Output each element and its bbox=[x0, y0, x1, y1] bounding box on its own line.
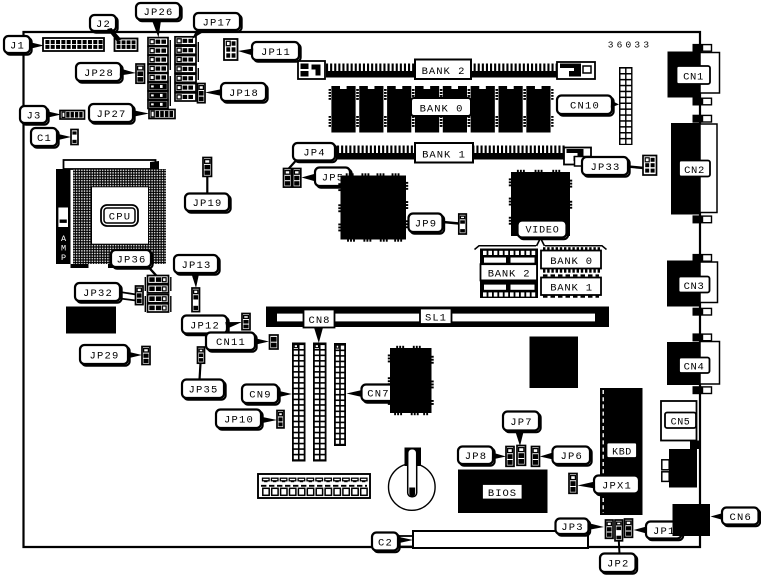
jumper JPX1 bbox=[569, 474, 577, 494]
label JP18 bbox=[221, 83, 268, 103]
wire CN7 arrow bbox=[347, 390, 363, 397]
video memory socket BANK2 bbox=[480, 249, 538, 299]
port CN2 bbox=[671, 123, 717, 215]
wire JP12 arrow bbox=[225, 322, 242, 329]
wire C2 arrow bbox=[397, 537, 413, 544]
svg-text:CN8: CN8 bbox=[309, 315, 331, 327]
svg-text:J1: J1 bbox=[10, 40, 25, 52]
svg-text:JP12: JP12 bbox=[190, 320, 220, 332]
label JP9 bbox=[409, 214, 445, 234]
svg-text:36033: 36033 bbox=[608, 40, 653, 51]
wire JP26 pointer bbox=[152, 21, 161, 38]
battery bbox=[389, 448, 436, 511]
wire J2 arrow bbox=[107, 28, 122, 41]
wire JP29 arrow bbox=[127, 352, 142, 359]
svg-text:C1: C1 bbox=[37, 133, 52, 145]
connector J3 bbox=[60, 111, 85, 120]
connector CN10 bbox=[619, 67, 633, 145]
label JP13 bbox=[174, 255, 220, 275]
label JP3 bbox=[556, 519, 591, 536]
jumper block JP36 bbox=[145, 276, 171, 313]
label BANK 2 (slot) bbox=[415, 60, 471, 80]
svg-text:CN3: CN3 bbox=[684, 281, 705, 293]
svg-text:M: M bbox=[61, 244, 66, 254]
svg-text:JP28: JP28 bbox=[84, 68, 114, 80]
svg-text:VIDEO: VIDEO bbox=[525, 226, 559, 237]
SIMM socket BANK1 slot bbox=[337, 146, 591, 167]
svg-text:CN9: CN9 bbox=[249, 390, 272, 402]
svg-text:C2: C2 bbox=[378, 537, 393, 549]
svg-text:JP18: JP18 bbox=[229, 88, 259, 100]
wire CN10 arrow bbox=[611, 101, 619, 108]
label JPX1 bbox=[594, 476, 641, 496]
port CN3 bbox=[667, 261, 718, 307]
keyboard controller KBD bbox=[600, 388, 643, 515]
svg-text:CN2: CN2 bbox=[684, 165, 705, 177]
svg-text:JP29: JP29 bbox=[89, 350, 119, 362]
jumper JP4 bbox=[284, 169, 292, 188]
svg-text:JP2: JP2 bbox=[607, 559, 630, 571]
label BIOS bbox=[482, 484, 523, 500]
label VIDEO bbox=[518, 221, 569, 240]
svg-text:JP8: JP8 bbox=[465, 451, 488, 463]
CPU socket feet bbox=[71, 264, 124, 268]
wire CN6 arrow bbox=[711, 513, 724, 520]
svg-text:CN4: CN4 bbox=[684, 362, 705, 374]
jumper JP10 bbox=[277, 411, 284, 428]
label KBD bbox=[607, 443, 638, 459]
jumper block JP26 bbox=[148, 38, 170, 109]
jumper CN11 bbox=[270, 335, 279, 349]
jumper JP13 bbox=[192, 288, 200, 312]
label JP8 bbox=[458, 447, 495, 466]
audio jack stack bbox=[662, 449, 697, 488]
label BANK 0 (chips) bbox=[411, 98, 471, 116]
label JP17 bbox=[194, 13, 242, 32]
connector J1 bbox=[43, 38, 104, 51]
label CN10 bbox=[557, 96, 614, 116]
SIMM memory chips BANK0 bbox=[329, 86, 554, 133]
wire JP36 pointer bbox=[148, 267, 158, 278]
label J1 bbox=[4, 36, 32, 55]
wire JP1 arrow bbox=[634, 527, 647, 534]
jumper JP33 bbox=[643, 156, 657, 176]
jumper block JP17 bbox=[175, 37, 198, 101]
board outline bbox=[24, 32, 701, 547]
label JP6 bbox=[553, 447, 592, 466]
jumper JP3 bbox=[606, 520, 614, 538]
wire JP3 arrow bbox=[588, 523, 604, 530]
svg-text:JP17: JP17 bbox=[202, 17, 232, 29]
wire JP4 pointer bbox=[288, 161, 297, 171]
connector J2 bbox=[115, 39, 138, 52]
label CPU bbox=[101, 205, 138, 226]
svg-text:CN5: CN5 bbox=[671, 418, 691, 429]
jumper JP12 bbox=[242, 314, 250, 330]
jumper JP32 bbox=[136, 286, 144, 305]
label CN1 bbox=[677, 66, 711, 84]
wire C1 arrow bbox=[56, 134, 71, 141]
wire JP17 pointer bbox=[192, 31, 205, 39]
part number 36033 bbox=[608, 40, 653, 51]
label C2 bbox=[372, 533, 400, 553]
wire JP18 arrow bbox=[205, 89, 222, 96]
svg-text:JP32: JP32 bbox=[83, 288, 113, 300]
svg-text:BANK 1: BANK 1 bbox=[422, 150, 466, 162]
port mounting tabs bbox=[693, 44, 712, 394]
jumper JP6 bbox=[532, 447, 540, 467]
wire VIDEO pointer bbox=[537, 238, 545, 246]
label JP2 bbox=[600, 554, 637, 574]
svg-text:JP35: JP35 bbox=[188, 385, 218, 397]
svg-text:CPU: CPU bbox=[109, 212, 132, 224]
svg-text:CN11: CN11 bbox=[216, 337, 246, 349]
wire JP13 pointer bbox=[192, 274, 200, 288]
svg-text:BANK 2: BANK 2 bbox=[488, 269, 531, 281]
label J2 bbox=[90, 15, 118, 33]
wire J3 arrow bbox=[46, 111, 61, 118]
label JP7 bbox=[503, 412, 541, 433]
svg-text:P: P bbox=[61, 253, 66, 263]
label JP35 bbox=[182, 380, 226, 400]
wire JP32 arrows bbox=[120, 292, 136, 301]
svg-text:JP3: JP3 bbox=[561, 522, 584, 534]
svg-text:CN7: CN7 bbox=[367, 389, 390, 401]
label CN3 bbox=[679, 277, 710, 294]
wire CN9 arrow bbox=[277, 391, 292, 398]
super I/O chip bbox=[388, 346, 434, 415]
svg-text:CN6: CN6 bbox=[729, 512, 752, 524]
label J3 bbox=[20, 106, 49, 125]
wire CN8 pointer bbox=[314, 328, 323, 344]
jumper JP28 bbox=[136, 64, 145, 83]
video memory socket BANK1 bbox=[541, 276, 601, 297]
wire J1 arrow bbox=[29, 42, 44, 49]
svg-text:JP1: JP1 bbox=[653, 526, 676, 538]
slot CN8/SL1 bar bbox=[266, 307, 609, 328]
svg-text:BIOS: BIOS bbox=[488, 488, 517, 500]
jumper JP1 bbox=[625, 519, 633, 537]
label JP29 bbox=[80, 345, 130, 366]
power connector bbox=[258, 474, 370, 498]
wire JP28 arrow bbox=[120, 69, 136, 76]
wire JPX1 arrow bbox=[578, 482, 596, 489]
svg-text:JP33: JP33 bbox=[590, 162, 620, 174]
wire JP2 pointer bbox=[618, 541, 621, 555]
svg-text:KBD: KBD bbox=[612, 448, 632, 459]
port CN6 bbox=[673, 504, 711, 536]
jumper JP5 bbox=[293, 169, 301, 188]
CPU retention bar bbox=[64, 160, 160, 169]
wire CN11 arrow bbox=[254, 338, 269, 345]
svg-text:JP10: JP10 bbox=[224, 415, 254, 427]
jumper JP2 bbox=[615, 520, 623, 541]
label JP5 bbox=[315, 168, 352, 188]
port CN4 bbox=[667, 342, 720, 386]
svg-text:JP4: JP4 bbox=[303, 148, 326, 160]
svg-text:JP7: JP7 bbox=[510, 417, 533, 429]
wire JP9 arrow bbox=[443, 222, 459, 224]
port CN1 bbox=[668, 52, 720, 98]
label CN5 bbox=[665, 413, 696, 429]
label JP27 bbox=[89, 104, 135, 124]
jumper JP8 bbox=[506, 447, 514, 467]
svg-text:JP11: JP11 bbox=[261, 47, 291, 59]
label CN6 bbox=[722, 508, 760, 527]
wire JP19 pointer bbox=[206, 177, 208, 195]
port CN5 bbox=[661, 401, 700, 449]
label JP32 bbox=[75, 283, 122, 303]
label JP11 bbox=[252, 42, 301, 62]
svg-text:BANK 0: BANK 0 bbox=[550, 256, 593, 268]
svg-text:JP19: JP19 bbox=[192, 198, 222, 210]
svg-text:JP36: JP36 bbox=[116, 254, 146, 266]
BIOS chip bbox=[458, 470, 548, 514]
wire JP10 arrow bbox=[260, 417, 277, 424]
SIMM socket BANK2 slot bbox=[298, 61, 595, 79]
label JP36 bbox=[111, 250, 153, 269]
label JP19 bbox=[185, 194, 231, 213]
connector CN8 header bbox=[313, 343, 327, 462]
svg-text:BANK 0: BANK 0 bbox=[420, 104, 464, 116]
connector CN7 header bbox=[334, 343, 346, 446]
cache chip bbox=[66, 307, 116, 334]
voltage regulator AMP bbox=[56, 169, 71, 264]
label CN9 bbox=[242, 385, 280, 405]
label JP26 bbox=[136, 3, 182, 21]
wire JP11 arrow bbox=[238, 49, 253, 56]
label CN2 bbox=[679, 161, 710, 178]
svg-text:SL1: SL1 bbox=[425, 313, 447, 325]
chipset chip U2 bbox=[338, 173, 408, 241]
svg-text:J3: J3 bbox=[26, 110, 41, 122]
label CN4 bbox=[679, 358, 710, 374]
wire JP35 pointer bbox=[200, 363, 201, 380]
svg-text:JP9: JP9 bbox=[415, 219, 438, 231]
overbrace video banks bbox=[475, 246, 607, 250]
svg-text:JP27: JP27 bbox=[96, 109, 126, 121]
wire JP33 arrow bbox=[628, 167, 644, 169]
label CN8 bbox=[304, 310, 335, 328]
jumper JP18 bbox=[198, 84, 206, 103]
label JP28 bbox=[76, 63, 123, 83]
video memory socket BANK0 bbox=[541, 247, 601, 273]
video chip bbox=[509, 170, 572, 236]
wire JP5 arrow bbox=[302, 174, 315, 181]
jumper JP7 bbox=[517, 446, 526, 466]
label BANK 1 (slot) bbox=[415, 143, 473, 163]
logic chip bbox=[530, 337, 579, 389]
jumper JP11 bbox=[224, 39, 238, 60]
jumper JP19 bbox=[203, 158, 212, 177]
label SL1 bbox=[420, 309, 452, 325]
svg-text:A: A bbox=[61, 234, 67, 244]
jumper JP9 bbox=[459, 214, 467, 234]
svg-text:JP13: JP13 bbox=[181, 260, 211, 272]
svg-text:JP26: JP26 bbox=[143, 7, 173, 19]
wire JP6 arrow bbox=[540, 453, 553, 460]
connector CN9 header bbox=[292, 343, 306, 462]
label CN7 bbox=[362, 385, 397, 403]
jumper JP29 bbox=[142, 347, 150, 365]
svg-text:BANK 1: BANK 1 bbox=[550, 283, 593, 295]
svg-text:CN10: CN10 bbox=[570, 101, 600, 113]
label C1 bbox=[31, 128, 59, 148]
capacitor C1 bbox=[71, 130, 78, 145]
jumper JP35 bbox=[198, 347, 205, 363]
label JP33 bbox=[582, 157, 630, 177]
CPU socket U? bbox=[73, 169, 166, 264]
wire JP27 arrow bbox=[132, 110, 149, 117]
label JP10 bbox=[216, 410, 263, 430]
label JP12 bbox=[182, 316, 229, 336]
svg-text:CN1: CN1 bbox=[683, 72, 704, 84]
label JP1 bbox=[646, 522, 683, 541]
wire JP7 pointer bbox=[516, 432, 524, 446]
label JP4 bbox=[293, 143, 337, 162]
svg-text:JP6: JP6 bbox=[560, 451, 583, 463]
capacitor C2 bar bbox=[400, 531, 589, 548]
wire JP8 arrow bbox=[492, 453, 506, 460]
connector JP27 bbox=[149, 110, 175, 119]
label CN11 bbox=[206, 333, 257, 352]
svg-text:JPX1: JPX1 bbox=[602, 480, 632, 492]
svg-text:BANK 2: BANK 2 bbox=[422, 66, 466, 78]
